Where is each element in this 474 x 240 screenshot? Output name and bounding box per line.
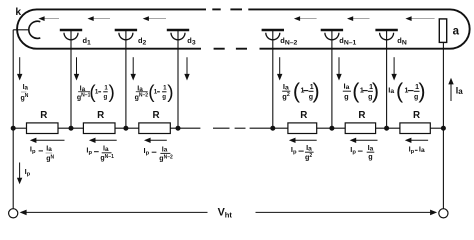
bleeder current arrow Ip (down) — [17, 163, 22, 185]
node junction (dN) — [384, 126, 389, 131]
label Ip-Ia/gN-2 — [144, 144, 173, 162]
electron flow arrow (top) 2 — [88, 16, 111, 21]
svg-text:): ) — [418, 79, 425, 103]
svg-text:): ) — [108, 82, 114, 103]
wire resistor row segment 1 — [13, 127, 26, 129]
svg-text:Ia: Ia — [162, 144, 168, 153]
label Ia/g fraction (dN-1 current) — [343, 82, 351, 101]
divider current arrow 6 — [405, 138, 428, 143]
terminal negative (left circle) — [9, 209, 18, 218]
svg-text:Ia: Ia — [456, 86, 463, 96]
node junction (d2) — [123, 126, 128, 131]
divider current arrow 3 — [144, 138, 167, 143]
svg-text:Ia: Ia — [344, 82, 350, 91]
current arrow down 7 — [391, 57, 396, 80]
label (1-1/g) factor d1 — [89, 82, 114, 103]
svg-text:): ) — [313, 79, 320, 103]
wire resistor row segment 2 — [58, 127, 83, 129]
dynode dN-2 — [262, 30, 284, 40]
svg-text:k: k — [15, 7, 21, 18]
resistor R2 — [83, 123, 115, 134]
svg-text:): ) — [167, 82, 173, 103]
wire resistor row segment 8 — [430, 127, 443, 129]
label Ia/gN (cathode current) — [21, 84, 29, 102]
resistor R3 — [139, 123, 171, 134]
dynode dN-1 — [321, 30, 343, 40]
svg-text:R: R — [153, 110, 160, 121]
label (1-1/g) factor dN-2 — [293, 79, 320, 103]
current arrow down 3 — [131, 57, 136, 80]
current arrow down 6 — [336, 57, 341, 80]
wire resistor row segment 5 — [250, 127, 288, 129]
Vht span arrow (left half) — [20, 210, 208, 216]
current arrow down 5 — [277, 57, 282, 80]
divider current arrow 4 — [289, 138, 317, 143]
svg-text:1: 1 — [360, 88, 364, 95]
svg-text:Ia: Ia — [103, 144, 109, 153]
label Ip-Ia/g2 — [291, 143, 314, 161]
label Ip-Ia/gN — [30, 144, 55, 163]
svg-text:Ia: Ia — [306, 143, 312, 152]
anode current arrow Ia (up) — [448, 78, 453, 101]
resistor R4 — [288, 123, 317, 134]
dynode d3 — [167, 30, 189, 40]
photomultiplier tube envelope (right solid part) — [248, 9, 469, 48]
dynode d2 — [115, 30, 137, 40]
photomultiplier tube envelope (left solid part) — [17, 9, 206, 48]
wire resistor row segment 6 — [317, 127, 346, 129]
electron flow arrow (top) 3 — [143, 16, 166, 21]
svg-text:R: R — [358, 110, 365, 121]
svg-text:R: R — [40, 110, 47, 121]
svg-text:g: g — [368, 152, 372, 161]
Vht span arrow (right half) — [256, 210, 438, 216]
node junction (anode) — [441, 126, 446, 131]
wire resistor row dashed break — [213, 127, 246, 129]
wire resistor row segment 7 — [376, 127, 400, 129]
wire dynode d2 stem — [125, 31, 127, 128]
label Ia/gN-2 fraction (d2 current) — [135, 83, 149, 101]
resistor R5 — [345, 123, 375, 134]
resistor R1 — [27, 123, 59, 134]
wire dynode d3 stem — [177, 31, 179, 128]
wire cathode lead — [13, 29, 29, 31]
electron flow arrow (top) 4 — [294, 16, 317, 21]
wire anode column (right vertical) — [442, 128, 444, 209]
node junction (dN-1) — [329, 126, 334, 131]
resistor R6 — [400, 123, 430, 134]
wire dynode dN-1 stem — [331, 31, 333, 128]
wire resistor row segment 4 — [170, 127, 200, 129]
label (1-1/g) factor dN — [396, 79, 426, 103]
label (1-1/g) factor d2 — [148, 82, 173, 103]
terminal positive (right circle) — [439, 209, 448, 218]
label (1-1/g) factor dN-1 — [352, 79, 379, 103]
node junction (d1) — [69, 126, 74, 131]
divider current arrow 5 — [350, 138, 378, 143]
svg-text:R: R — [97, 110, 104, 121]
wire dynode dN-2 stem — [272, 31, 274, 128]
current arrow down 1 — [17, 57, 22, 80]
electron flow arrow (top) 5 — [347, 16, 370, 21]
electron flow arrow (top) 1 — [38, 16, 59, 21]
node junction (d3) — [176, 126, 181, 131]
svg-text:R: R — [413, 110, 420, 121]
node junction (cathode) — [11, 126, 16, 131]
node junction (dN-2) — [270, 126, 275, 131]
tube envelope dashed break (top) — [212, 8, 242, 10]
label Ip-Ia — [409, 145, 425, 155]
svg-text:g: g — [162, 93, 166, 100]
svg-text:R: R — [300, 110, 307, 121]
current arrow down 2 — [74, 57, 79, 80]
svg-text:Ia: Ia — [368, 143, 374, 152]
wire cathode column (left vertical) — [12, 30, 14, 209]
svg-text:1: 1 — [301, 88, 305, 95]
tube envelope dashed break (bottom) — [214, 48, 247, 50]
svg-text:g: g — [103, 93, 107, 100]
svg-text:(: ( — [396, 79, 404, 103]
svg-text:Ia: Ia — [23, 84, 29, 91]
anode a (plate) — [439, 19, 446, 43]
svg-text:g: g — [344, 92, 349, 101]
label Ia/g2 fraction (dN-2 current) — [282, 82, 290, 101]
svg-text:1: 1 — [405, 88, 409, 95]
divider current arrow 2 — [89, 138, 117, 143]
svg-text:Ia: Ia — [283, 82, 289, 91]
wire dynode dN stem — [386, 31, 388, 128]
svg-text:a: a — [453, 26, 460, 38]
wire resistor row segment 3 — [115, 127, 139, 129]
label Ip-Ia/g — [350, 143, 374, 161]
dynode dN — [375, 30, 397, 40]
wire dynode d1 stem — [70, 31, 72, 128]
label Ip-Ia/gN-1 — [86, 144, 114, 162]
wire anode lead — [442, 42, 444, 128]
svg-text:): ) — [372, 79, 379, 103]
svg-text:Ia: Ia — [419, 145, 425, 154]
dynode d1 — [60, 30, 82, 40]
electron flow arrow (top) 6 — [405, 16, 434, 21]
divider current arrow 1 — [30, 138, 65, 143]
current arrow down 4 — [184, 57, 189, 80]
label Ia/gN-1 fraction (d1 current) — [77, 83, 91, 101]
cathode k symbol (arc) — [29, 21, 40, 38]
